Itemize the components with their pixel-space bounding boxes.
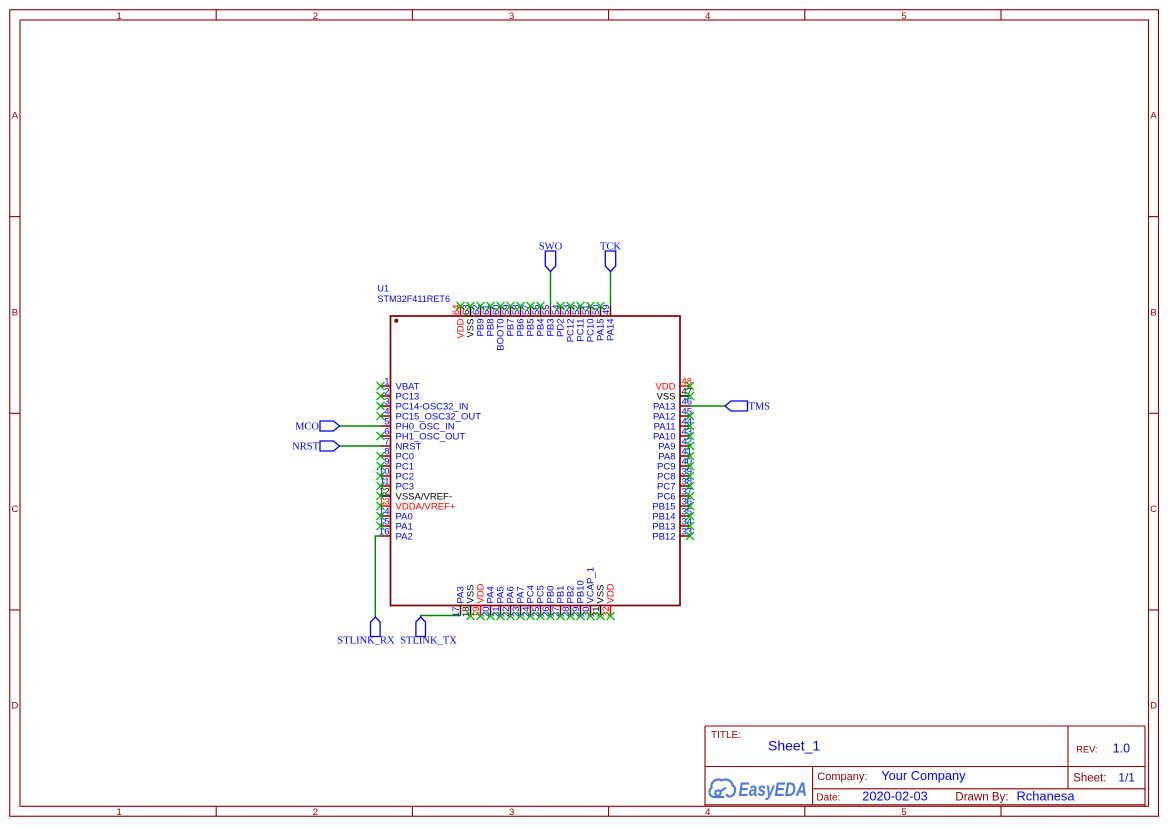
pin 38 PC7 (right) xyxy=(657,477,694,493)
netport NRST xyxy=(292,441,339,453)
svg-text:VDD: VDD xyxy=(606,583,617,603)
svg-text:1.0: 1.0 xyxy=(1113,741,1130,755)
pin 55 PB3 (top) xyxy=(541,304,557,336)
svg-text:Company:: Company: xyxy=(817,771,867,783)
svg-text:5: 5 xyxy=(901,807,906,818)
pin 60 BOOT0 (top) xyxy=(491,302,507,351)
pin 45 PA12 (right) xyxy=(653,407,694,423)
pin 21 PA5 (bottom) xyxy=(491,586,507,620)
pin 34 PB13 (right) xyxy=(652,517,694,533)
svg-text:MCO: MCO xyxy=(295,422,319,433)
EasyEDA logo xyxy=(709,779,735,797)
wire TCK to pin 49 xyxy=(610,272,612,307)
svg-text:TITLE:: TITLE: xyxy=(711,730,741,741)
pin 16 PA2 (left) xyxy=(379,527,413,543)
pin 61 PB8 (top) xyxy=(481,302,497,336)
svg-text:C: C xyxy=(1150,504,1157,515)
svg-text:TCK: TCK xyxy=(600,242,621,253)
pin 11 PC3 (left) xyxy=(377,477,414,493)
netport SWO xyxy=(539,242,563,272)
pin 24 PC4 (bottom) xyxy=(521,585,537,620)
pin 15 PA1 (left) xyxy=(377,517,413,533)
netport STLINK_RX xyxy=(337,617,395,647)
refdes U1 value STM32F411RET6 xyxy=(377,284,450,304)
svg-text:PA2: PA2 xyxy=(396,532,413,543)
title block xyxy=(705,726,1145,806)
svg-text:STLINK_TX: STLINK_TX xyxy=(400,636,457,647)
svg-text:3: 3 xyxy=(509,11,514,22)
svg-text:2: 2 xyxy=(313,11,318,22)
svg-text:SWO: SWO xyxy=(539,242,563,253)
pin 51 PC10 (top) xyxy=(581,302,597,342)
netport TCK xyxy=(600,242,621,272)
svg-text:EasyEDA: EasyEDA xyxy=(739,780,808,801)
pin 40 PC9 (right) xyxy=(657,457,694,473)
pin 56 PB4 (top) xyxy=(531,302,547,336)
svg-text:Sheet_1: Sheet_1 xyxy=(768,737,820,753)
pin 43 PA10 (right) xyxy=(653,427,694,443)
pin 41 PA8 (right) xyxy=(658,447,694,463)
pin 31 VSS (bottom) xyxy=(591,584,607,620)
pin 37 PC6 (right) xyxy=(657,487,694,503)
pin 6 PH1_OSC_OUT (left) xyxy=(377,427,466,443)
svg-text:16: 16 xyxy=(379,527,390,538)
svg-text:A: A xyxy=(12,111,19,122)
pin 10 PC2 (left) xyxy=(377,467,414,483)
pin 62 PB9 (top) xyxy=(471,302,487,336)
pin 1 VBAT (left) xyxy=(377,377,420,393)
pin 13 VDDA/VREF+ (left) xyxy=(377,497,456,513)
pin 12 VSSA/VREF- (left) xyxy=(377,487,453,503)
netport MCO xyxy=(295,421,339,433)
pin 19 VDD (bottom) xyxy=(471,583,487,620)
pin 58 PB6 (top) xyxy=(511,302,527,336)
pin 53 PC12 (top) xyxy=(561,302,577,342)
pin 54 PD2 (top) xyxy=(551,302,567,337)
svg-text:REV:: REV: xyxy=(1076,744,1097,754)
wire NRST to pin 7 xyxy=(340,445,381,447)
pin 8 PC0 (left) xyxy=(377,447,414,463)
pin 26 PB0 (bottom) xyxy=(541,586,557,620)
svg-text:4: 4 xyxy=(705,11,710,22)
pin 29 PB10 (bottom) xyxy=(571,580,587,620)
svg-text:A: A xyxy=(1150,111,1157,122)
pin 32 VDD (bottom) xyxy=(601,583,617,620)
pin 3 PC14-OSC32_IN (left) xyxy=(377,397,469,413)
svg-text:3: 3 xyxy=(509,807,514,818)
svg-text:U1: U1 xyxy=(377,284,389,294)
pin 46 PA13 (right) xyxy=(653,397,692,413)
pin 20 PA4 (bottom) xyxy=(481,586,497,620)
pin 30 VCAP_1 (bottom) xyxy=(581,567,597,620)
pin 33 PB12 (right) xyxy=(652,527,694,543)
pin 17 PA3 (bottom) xyxy=(451,586,467,617)
wire SWO to pin 55 xyxy=(550,272,552,307)
svg-text:1/1: 1/1 xyxy=(1118,771,1135,785)
pin 2 PC13 (left) xyxy=(377,387,420,403)
pin 42 PA9 (right) xyxy=(658,437,694,453)
svg-text:Rchanesa: Rchanesa xyxy=(1017,789,1076,804)
pin 49 PA14 (top) xyxy=(601,304,617,341)
svg-text:B: B xyxy=(12,307,18,318)
pin 4 PC15_OSC32_OUT (left) xyxy=(377,407,482,423)
pin 14 PA0 (left) xyxy=(377,507,413,523)
pin 47 VSS (right) xyxy=(656,387,694,403)
svg-text:B: B xyxy=(1150,307,1156,318)
pin 50 PA15 (top) xyxy=(591,302,607,341)
op-amp U1 STM32F411RET6 chip body xyxy=(391,316,681,606)
pin 59 PB7 (top) xyxy=(501,302,517,336)
svg-text:STM32F411RET6: STM32F411RET6 xyxy=(377,294,450,304)
wire STLINK_TX to pin 17 xyxy=(421,616,461,618)
pin 22 PA6 (bottom) xyxy=(501,586,517,620)
svg-text:2020-02-03: 2020-02-03 xyxy=(862,789,927,804)
pin 18 VSS (bottom) xyxy=(461,584,477,620)
svg-text:1: 1 xyxy=(117,807,122,818)
svg-text:STLINK_RX: STLINK_RX xyxy=(337,636,395,647)
pin 52 PC11 (top) xyxy=(571,302,587,342)
wire TMS to pin 46 xyxy=(690,405,725,407)
pin 28 PB2 (bottom) xyxy=(561,586,577,620)
wire STLINK_RX to pin 16 xyxy=(375,536,380,617)
netport STLINK_TX xyxy=(400,617,457,647)
svg-text:5: 5 xyxy=(901,11,906,22)
pin 44 PA11 (right) xyxy=(654,417,694,433)
pin 63 VSS (top) xyxy=(461,302,477,338)
svg-text:Your Company: Your Company xyxy=(881,768,966,783)
pin 39 PC8 (right) xyxy=(657,467,694,483)
pin 25 PC5 (bottom) xyxy=(531,585,547,620)
svg-text:Date:: Date: xyxy=(816,793,840,804)
netport TMS xyxy=(725,401,770,413)
svg-text:NRST: NRST xyxy=(292,442,319,453)
pin 7 NRST (left) xyxy=(381,437,422,453)
pin 5 PH0_OSC_IN (left) xyxy=(381,417,455,433)
svg-text:49: 49 xyxy=(601,304,612,315)
svg-text:4: 4 xyxy=(705,807,710,818)
svg-text:2: 2 xyxy=(313,807,318,818)
svg-text:D: D xyxy=(1150,701,1157,712)
svg-text:TMS: TMS xyxy=(749,402,771,413)
pin 36 PB15 (right) xyxy=(652,497,694,513)
wire MCO to pin 5 xyxy=(340,425,381,427)
svg-text:PA14: PA14 xyxy=(606,319,617,342)
svg-text:D: D xyxy=(11,701,18,712)
pin 23 PA7 (bottom) xyxy=(511,586,527,620)
svg-text:C: C xyxy=(11,504,18,515)
pin 35 PB14 (right) xyxy=(652,507,694,523)
pin 57 PB5 (top) xyxy=(521,302,537,336)
svg-text:PB12: PB12 xyxy=(652,532,675,543)
svg-text:Drawn By:: Drawn By: xyxy=(955,792,1008,804)
pin 9 PC1 (left) xyxy=(377,457,414,473)
title block texts xyxy=(711,730,1106,804)
pin 27 PB1 (bottom) xyxy=(551,586,567,620)
pin 64 VDD (top) xyxy=(451,302,467,339)
svg-text:1: 1 xyxy=(117,11,122,22)
svg-text:Sheet:: Sheet: xyxy=(1073,773,1106,785)
pin 48 VDD (right) xyxy=(655,377,694,393)
